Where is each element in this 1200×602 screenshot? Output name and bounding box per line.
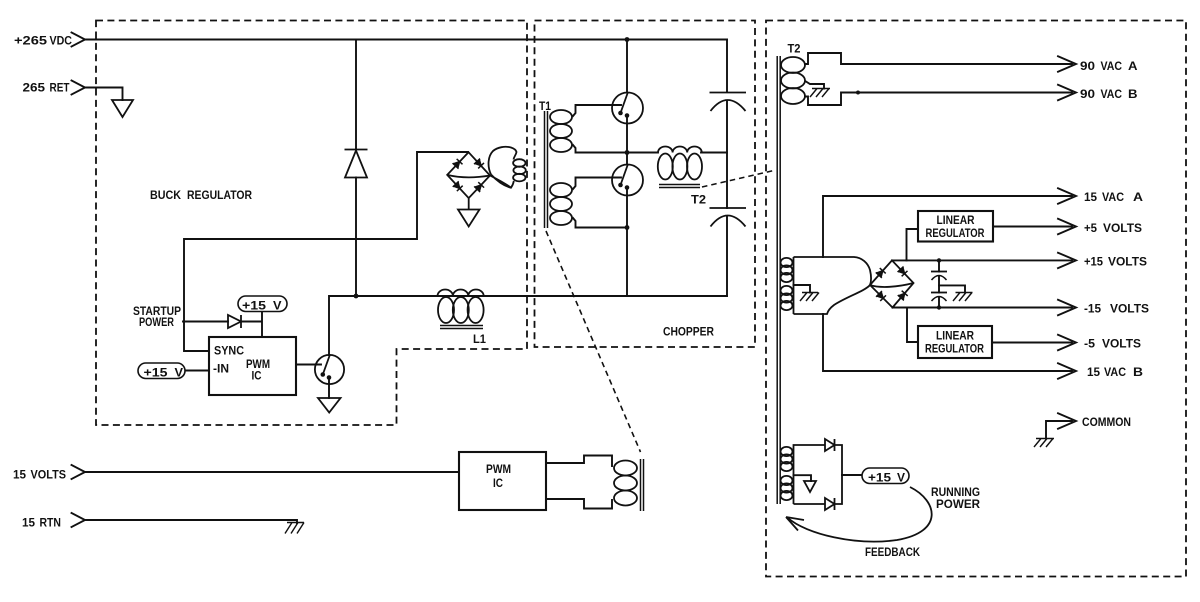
svg-text:L1: L1 bbox=[473, 334, 487, 346]
svg-text:B: B bbox=[1133, 365, 1143, 379]
svg-text:CHOPPER: CHOPPER bbox=[663, 325, 714, 339]
svg-text:IC: IC bbox=[493, 478, 503, 490]
svg-text:265: 265 bbox=[23, 81, 46, 95]
svg-text:LINEAR: LINEAR bbox=[937, 215, 976, 227]
svg-text:+15: +15 bbox=[144, 365, 168, 379]
svg-text:A: A bbox=[1128, 59, 1138, 73]
svg-text:REGULATOR: REGULATOR bbox=[925, 344, 985, 356]
svg-text:VAC: VAC bbox=[1104, 365, 1126, 379]
svg-text:A: A bbox=[1133, 190, 1143, 204]
svg-text:+5: +5 bbox=[1084, 221, 1097, 235]
svg-text:VOLTS: VOLTS bbox=[31, 468, 67, 482]
svg-text:-IN: -IN bbox=[213, 364, 229, 376]
svg-text:VDC: VDC bbox=[50, 33, 73, 47]
svg-text:POWER: POWER bbox=[936, 499, 981, 511]
svg-text:B: B bbox=[1128, 87, 1138, 101]
svg-text:VOLTS: VOLTS bbox=[1110, 302, 1149, 316]
svg-text:REGULATOR: REGULATOR bbox=[187, 188, 252, 202]
svg-text:T1: T1 bbox=[539, 101, 552, 113]
svg-text:IC: IC bbox=[252, 371, 262, 383]
svg-text:POWER: POWER bbox=[139, 317, 175, 329]
svg-text:+265: +265 bbox=[14, 33, 47, 47]
svg-text:FEEDBACK: FEEDBACK bbox=[865, 547, 921, 559]
svg-text:RUNNING: RUNNING bbox=[931, 487, 980, 499]
svg-text:V: V bbox=[897, 471, 906, 485]
svg-text:+15: +15 bbox=[868, 471, 891, 485]
svg-text:REGULATOR: REGULATOR bbox=[926, 228, 986, 240]
svg-text:COMMON: COMMON bbox=[1082, 417, 1131, 429]
svg-text:SYNC: SYNC bbox=[214, 346, 244, 358]
svg-text:15: 15 bbox=[1087, 365, 1100, 379]
svg-text:T2: T2 bbox=[691, 193, 706, 207]
svg-text:RET: RET bbox=[50, 81, 70, 95]
svg-text:PWM: PWM bbox=[486, 464, 511, 476]
svg-text:T2: T2 bbox=[788, 44, 801, 56]
svg-text:-5: -5 bbox=[1084, 337, 1095, 351]
svg-text:LINEAR: LINEAR bbox=[936, 331, 975, 343]
svg-text:VOLTS: VOLTS bbox=[1102, 337, 1141, 351]
svg-text:V: V bbox=[175, 365, 184, 379]
svg-text:15: 15 bbox=[1084, 190, 1097, 204]
svg-text:VAC: VAC bbox=[1101, 87, 1123, 101]
svg-text:BUCK: BUCK bbox=[150, 188, 181, 202]
svg-text:VOLTS: VOLTS bbox=[1103, 221, 1142, 235]
svg-text:90: 90 bbox=[1080, 87, 1095, 101]
svg-text:+15: +15 bbox=[242, 299, 266, 313]
svg-text:15: 15 bbox=[22, 516, 35, 530]
svg-text:VAC: VAC bbox=[1101, 59, 1123, 73]
svg-text:RTN: RTN bbox=[40, 516, 62, 530]
svg-text:VAC: VAC bbox=[1102, 190, 1124, 204]
svg-text:+15: +15 bbox=[1084, 255, 1103, 269]
svg-text:15: 15 bbox=[13, 468, 26, 482]
svg-text:VOLTS: VOLTS bbox=[1108, 255, 1147, 269]
svg-text:90: 90 bbox=[1080, 59, 1095, 73]
svg-text:PWM: PWM bbox=[246, 359, 270, 371]
svg-text:-15: -15 bbox=[1084, 302, 1101, 316]
svg-text:V: V bbox=[273, 299, 282, 313]
